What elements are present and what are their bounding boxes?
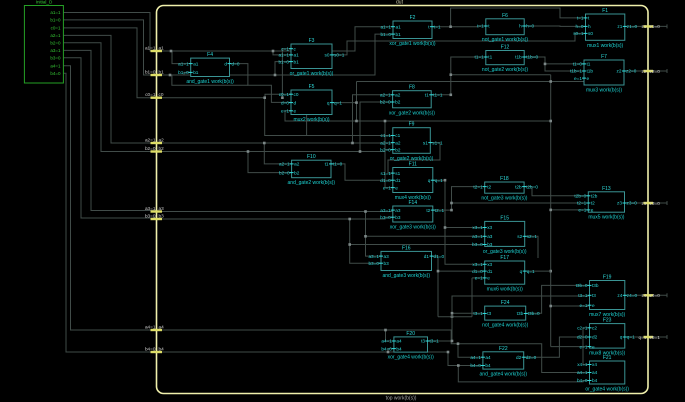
svg-text:a2: a2	[159, 137, 165, 142]
svg-text:t2=1: t2=1	[473, 184, 483, 189]
svg-text:F3: F3	[309, 38, 315, 44]
svg-text:e: e	[591, 208, 594, 213]
svg-text:xor_gate3 work(b(s)): xor_gate3 work(b(s))	[390, 225, 436, 231]
svg-text:b3: b3	[487, 242, 493, 247]
svg-text:b2=0: b2=0	[145, 146, 156, 151]
svg-text:t3=1: t3=1	[430, 339, 440, 344]
svg-text:and_gate3 work(b(s)): and_gate3 work(b(s))	[382, 273, 430, 279]
svg-text:h=0: h=0	[576, 24, 584, 29]
svg-text:z3: z3	[642, 201, 647, 206]
svg-text:b2: b2	[294, 170, 300, 175]
svg-text:mux6 work(b(s)): mux6 work(b(s))	[487, 287, 523, 293]
svg-text:d2=0: d2=0	[577, 335, 588, 340]
svg-text:mux2 work(b(s)): mux2 work(b(s))	[293, 117, 329, 123]
svg-text:b2: b2	[395, 147, 401, 152]
svg-text:b2=0: b2=0	[279, 170, 290, 175]
svg-text:a1: a1	[193, 61, 199, 66]
svg-text:x3: x3	[487, 262, 492, 267]
svg-text:x3=1: x3=1	[472, 225, 483, 230]
svg-text:d1=0: d1=0	[380, 178, 391, 183]
svg-text:a3=1: a3=1	[472, 234, 483, 239]
svg-text:e=1: e=1	[383, 185, 391, 190]
svg-text:c2: c2	[592, 326, 597, 331]
svg-text:s1: s1	[395, 171, 400, 176]
svg-text:a1=1: a1=1	[145, 45, 156, 50]
svg-text:b2: b2	[159, 146, 165, 151]
svg-text:c2=1: c2=1	[577, 326, 588, 331]
svg-text:b1: b1	[193, 70, 199, 75]
svg-text:b1=0: b1=0	[50, 18, 61, 23]
svg-text:t2: t2	[591, 201, 595, 206]
svg-text:b3=0: b3=0	[50, 55, 61, 60]
svg-text:a2: a2	[395, 140, 401, 145]
svg-text:t=1: t=1	[434, 24, 441, 29]
svg-text:s0: s0	[325, 53, 330, 58]
svg-text:b1=0: b1=0	[145, 69, 156, 74]
svg-text:t2b: t2b	[591, 194, 598, 199]
svg-text:a2=1: a2=1	[145, 137, 156, 142]
svg-text:F2: F2	[410, 15, 416, 21]
svg-text:z3: z3	[617, 201, 622, 206]
svg-text:or_gate1 work(b(s)): or_gate1 work(b(s))	[290, 71, 334, 77]
svg-text:t3: t3	[592, 293, 596, 298]
svg-text:and_gate2 work(b(s)): and_gate2 work(b(s))	[288, 180, 336, 186]
svg-text:t2: t2	[487, 184, 491, 189]
svg-text:t1b=1: t1b=1	[570, 69, 582, 74]
svg-text:t3b=0: t3b=0	[576, 283, 588, 288]
svg-text:e: e	[587, 76, 590, 81]
svg-text:b1=0: b1=0	[178, 70, 189, 75]
svg-text:z3=0: z3=0	[650, 201, 661, 206]
svg-text:b3=0: b3=0	[472, 242, 483, 247]
svg-text:e: e	[487, 276, 490, 281]
svg-text:xor_gate4 work(b(s)): xor_gate4 work(b(s))	[388, 355, 434, 361]
svg-text:d2: d2	[592, 335, 598, 340]
svg-text:t3=1: t3=1	[578, 293, 588, 298]
svg-text:e: e	[592, 344, 595, 349]
svg-text:d=0: d=0	[281, 100, 289, 105]
svg-text:d2=0: d2=0	[526, 355, 537, 360]
svg-text:t1b: t1b	[587, 69, 594, 74]
svg-text:mux1 work(b(s)): mux1 work(b(s))	[587, 43, 623, 49]
svg-text:a1: a1	[159, 45, 165, 50]
svg-text:b2=0: b2=0	[50, 40, 61, 45]
svg-text:a1=1: a1=1	[50, 10, 61, 15]
svg-text:a3: a3	[159, 206, 165, 211]
svg-text:z4=0: z4=0	[650, 293, 661, 298]
svg-text:t3: t3	[421, 339, 425, 344]
svg-text:a2=1: a2=1	[380, 140, 391, 145]
svg-text:a4=1: a4=1	[577, 370, 588, 375]
svg-text:z1=0: z1=0	[650, 24, 661, 29]
svg-text:F11: F11	[409, 162, 417, 168]
svg-text:F20: F20	[406, 331, 415, 337]
svg-text:e=1: e=1	[475, 276, 483, 281]
svg-text:x3=1: x3=1	[472, 262, 483, 267]
svg-text:F1: F1	[602, 8, 608, 14]
svg-text:t2b: t2b	[515, 184, 522, 189]
svg-text:or_gate3 work(b(s)): or_gate3 work(b(s))	[483, 249, 527, 255]
svg-text:b2: b2	[395, 100, 401, 105]
svg-text:z1=0: z1=0	[627, 24, 638, 29]
svg-text:a1=1: a1=1	[278, 53, 289, 58]
svg-text:a1=1: a1=1	[178, 61, 189, 66]
svg-text:t1=1: t1=1	[433, 93, 443, 98]
svg-text:a3=1: a3=1	[368, 254, 379, 259]
svg-text:t1: t1	[488, 55, 492, 60]
svg-text:a3=1: a3=1	[380, 208, 391, 213]
svg-text:a4: a4	[159, 324, 165, 329]
svg-text:z2: z2	[642, 69, 647, 74]
svg-text:q=1: q=1	[527, 269, 535, 274]
svg-text:b4=0: b4=0	[145, 346, 156, 351]
svg-text:b4: b4	[396, 346, 402, 351]
svg-text:t2b=0: t2b=0	[574, 194, 586, 199]
svg-text:x4=1: x4=1	[577, 362, 588, 367]
svg-text:q: q	[620, 335, 623, 340]
svg-text:b3=0: b3=0	[368, 261, 379, 266]
svg-text:F24: F24	[501, 300, 510, 306]
svg-text:s0=1: s0=1	[334, 53, 345, 58]
svg-text:a4=1: a4=1	[381, 339, 392, 344]
svg-text:t1=1: t1=1	[475, 55, 485, 60]
svg-text:b4=0: b4=0	[577, 378, 588, 383]
svg-text:F21: F21	[603, 355, 612, 361]
svg-text:q=1: q=1	[334, 100, 342, 105]
svg-text:z2: z2	[617, 69, 622, 74]
svg-text:t3=1: t3=1	[473, 311, 483, 316]
svg-text:q: q	[428, 178, 431, 183]
svg-text:d2: d2	[516, 355, 522, 360]
svg-text:b3=0: b3=0	[380, 215, 391, 220]
svg-text:b4=0: b4=0	[381, 346, 392, 351]
svg-text:t2: t2	[426, 208, 430, 213]
svg-text:F16: F16	[402, 245, 411, 251]
svg-text:not_gate2 work(b(s)): not_gate2 work(b(s))	[482, 67, 528, 73]
svg-text:a3: a3	[395, 208, 401, 213]
svg-text:a1=1: a1=1	[380, 24, 391, 29]
svg-text:xor_gate2 work(b(s)): xor_gate2 work(b(s))	[389, 110, 435, 116]
svg-text:q: q	[327, 100, 330, 105]
svg-text:e: e	[294, 109, 297, 114]
svg-text:s0: s0	[588, 31, 593, 36]
svg-text:s1=1: s1=1	[381, 171, 392, 176]
svg-text:c0: c0	[159, 92, 164, 97]
svg-text:F7: F7	[601, 54, 607, 60]
svg-text:t1=0: t1=0	[333, 162, 343, 167]
svg-text:a4: a4	[485, 355, 491, 360]
svg-text:b4=0: b4=0	[50, 71, 61, 76]
svg-text:a4=1: a4=1	[470, 355, 481, 360]
svg-text:a1: a1	[396, 24, 402, 29]
svg-text:a3=1: a3=1	[145, 206, 156, 211]
svg-text:b3: b3	[384, 261, 390, 266]
svg-text:z1: z1	[617, 24, 622, 29]
svg-text:or_gate4 work(b(s)): or_gate4 work(b(s))	[585, 387, 629, 393]
svg-text:e: e	[395, 185, 398, 190]
svg-text:F9: F9	[409, 122, 415, 128]
svg-text:F23: F23	[603, 318, 612, 324]
svg-text:b4=0: b4=0	[470, 363, 481, 368]
svg-text:c0=1: c0=1	[279, 92, 290, 97]
svg-text:F14: F14	[408, 200, 417, 206]
svg-text:a4=1: a4=1	[50, 63, 61, 68]
svg-text:s1: s1	[423, 140, 428, 145]
svg-text:b3: b3	[395, 215, 401, 220]
svg-text:z1: z1	[642, 24, 647, 29]
svg-text:q: q	[520, 269, 523, 274]
svg-text:d: d	[294, 100, 297, 105]
svg-text:F4: F4	[207, 52, 213, 58]
svg-text:h: h	[588, 24, 591, 29]
svg-text:s1=1: s1=1	[432, 140, 443, 145]
svg-text:F12: F12	[501, 45, 510, 51]
svg-text:top work(b(s)): top work(b(s))	[386, 396, 417, 402]
svg-text:z2=0: z2=0	[626, 69, 637, 74]
svg-text:t3b: t3b	[517, 311, 524, 316]
svg-text:b3=0: b3=0	[145, 213, 156, 218]
svg-text:b4: b4	[159, 346, 165, 351]
svg-text:and_gate1 work(b(s)): and_gate1 work(b(s))	[186, 79, 234, 85]
svg-text:b3: b3	[159, 213, 165, 218]
svg-text:t1: t1	[325, 162, 329, 167]
svg-text:a1: a1	[294, 53, 300, 58]
svg-text:t=1: t=1	[477, 24, 484, 29]
svg-text:mux5 work(b(s)): mux5 work(b(s))	[588, 215, 624, 221]
svg-text:t3b: t3b	[592, 283, 599, 288]
svg-text:a3: a3	[487, 234, 493, 239]
svg-text:not_gate4 work(b(s)): not_gate4 work(b(s))	[482, 323, 528, 329]
svg-text:b4: b4	[592, 378, 598, 383]
svg-text:c0=1: c0=1	[51, 26, 61, 31]
svg-text:c1=1: c1=1	[381, 133, 392, 138]
svg-text:d1=0: d1=0	[434, 254, 445, 259]
svg-text:and_gate4 work(b(s)): and_gate4 work(b(s))	[480, 372, 528, 378]
svg-text:a4: a4	[396, 339, 402, 344]
svg-text:t1b: t1b	[515, 55, 522, 60]
svg-text:not_gate1 work(b(s)): not_gate1 work(b(s))	[482, 37, 528, 43]
svg-text:t=1: t=1	[577, 16, 584, 21]
svg-text:q=1: q=1	[639, 335, 647, 340]
svg-text:e=1: e=1	[580, 344, 588, 349]
svg-text:Initial_D: Initial_D	[36, 0, 53, 5]
svg-text:z4: z4	[617, 293, 622, 298]
svg-text:x4: x4	[592, 362, 597, 367]
svg-text:c=1: c=1	[281, 46, 289, 51]
svg-text:t2=1: t2=1	[435, 208, 445, 213]
svg-text:q=1: q=1	[627, 335, 635, 340]
svg-text:b2=0: b2=0	[380, 147, 391, 152]
svg-text:e=1: e=1	[578, 208, 586, 213]
svg-text:F22: F22	[499, 346, 508, 352]
svg-text:s2: s2	[517, 234, 522, 239]
svg-text:a4=1: a4=1	[145, 324, 156, 329]
svg-text:b1: b1	[294, 59, 300, 64]
svg-text:not_gate3 work(b(s)): not_gate3 work(b(s))	[481, 196, 527, 202]
svg-text:F8: F8	[409, 85, 415, 91]
svg-text:b4: b4	[485, 363, 491, 368]
svg-text:b1: b1	[396, 32, 402, 37]
svg-text:d1: d1	[487, 269, 493, 274]
svg-text:a3: a3	[384, 254, 390, 259]
svg-text:t1: t1	[587, 62, 591, 67]
svg-text:mux3 work(b(s)): mux3 work(b(s))	[586, 88, 622, 94]
svg-text:z4=0: z4=0	[627, 293, 638, 298]
svg-text:dut: dut	[396, 0, 404, 6]
svg-text:F5: F5	[309, 84, 315, 90]
svg-text:d1=0: d1=0	[472, 269, 483, 274]
svg-text:a4: a4	[592, 370, 598, 375]
svg-text:d: d	[224, 61, 227, 66]
svg-text:F18: F18	[500, 176, 509, 182]
svg-text:xor_gate1 work(b(s)): xor_gate1 work(b(s))	[389, 41, 435, 47]
svg-text:h: h	[519, 24, 522, 29]
svg-text:e=1: e=1	[580, 303, 588, 308]
svg-text:c0=1: c0=1	[145, 92, 156, 97]
svg-text:t3: t3	[487, 311, 491, 316]
svg-text:h=0: h=0	[526, 24, 534, 29]
svg-text:t1: t1	[425, 93, 429, 98]
svg-text:a2: a2	[294, 162, 300, 167]
svg-text:a2=1: a2=1	[279, 162, 290, 167]
svg-text:F17: F17	[500, 255, 509, 261]
svg-text:t2b=0: t2b=0	[526, 184, 538, 189]
svg-text:e: e	[592, 303, 595, 308]
svg-text:b1=0: b1=0	[278, 59, 289, 64]
svg-text:a2=1: a2=1	[380, 93, 391, 98]
svg-text:F10: F10	[307, 154, 316, 160]
svg-text:s0=1: s0=1	[573, 31, 584, 36]
svg-text:t2=1: t2=1	[577, 201, 587, 206]
svg-text:z5=1: z5=1	[650, 335, 661, 340]
svg-text:d=0: d=0	[232, 61, 240, 66]
svg-text:z3=0: z3=0	[627, 201, 638, 206]
svg-text:F6: F6	[502, 13, 508, 19]
svg-text:t3b=0: t3b=0	[528, 311, 540, 316]
svg-text:c1: c1	[395, 133, 400, 138]
svg-text:s2=1: s2=1	[527, 234, 538, 239]
svg-text:x3: x3	[487, 225, 492, 230]
svg-text:t1b=0: t1b=0	[526, 55, 538, 60]
svg-text:b1: b1	[159, 69, 165, 74]
svg-text:z4: z4	[642, 293, 647, 298]
svg-text:t1=0: t1=0	[573, 62, 583, 67]
svg-text:d1: d1	[424, 254, 430, 259]
svg-text:F19: F19	[603, 275, 612, 281]
svg-text:F13: F13	[602, 186, 611, 192]
svg-text:a3=1: a3=1	[50, 48, 61, 53]
svg-text:F15: F15	[500, 215, 509, 221]
svg-text:e=1: e=1	[281, 109, 289, 114]
svg-text:e=1: e=1	[574, 76, 582, 81]
svg-text:q=1: q=1	[435, 178, 443, 183]
svg-text:d1: d1	[395, 178, 401, 183]
svg-text:c0: c0	[294, 92, 299, 97]
svg-text:z2=0: z2=0	[650, 69, 661, 74]
svg-text:a2=1: a2=1	[50, 33, 61, 38]
svg-text:b2=0: b2=0	[380, 100, 391, 105]
svg-text:a2: a2	[395, 93, 401, 98]
svg-text:b1=0: b1=0	[380, 32, 391, 37]
